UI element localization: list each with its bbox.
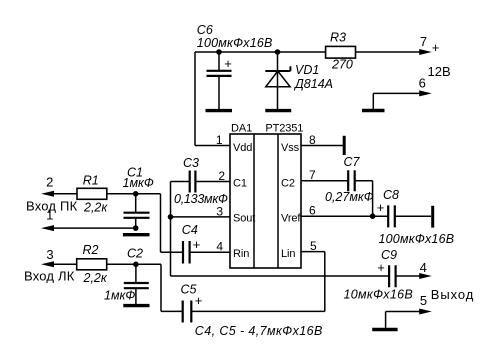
node Vref junction: [370, 213, 376, 219]
svg-text:5: 5: [420, 293, 427, 308]
ground (VD1): [265, 109, 291, 112]
node terminal 4 (output): [419, 273, 432, 279]
wire pin8 Vss to ground: [301, 145, 343, 147]
resistor R3: [326, 46, 356, 58]
svg-text:1мкФ: 1мкФ: [104, 288, 135, 302]
wire pin5 Lin: [301, 251, 325, 253]
svg-text:C4, C5 - 4,7мкФх16В: C4, C5 - 4,7мкФх16В: [195, 324, 323, 338]
svg-text:Вход ЛК: Вход ЛК: [24, 268, 75, 283]
svg-text:0,133мкФ: 0,133мкФ: [174, 192, 228, 206]
ground (C2): [123, 304, 149, 307]
svg-text:1мкФ: 1мкФ: [123, 176, 154, 190]
wire pin6 Vref: [301, 215, 388, 217]
svg-text:Vss: Vss: [281, 142, 300, 154]
wire +12V rail right: [356, 51, 425, 53]
svg-text:Lin: Lin: [281, 248, 295, 260]
capacitor C9: [389, 265, 424, 287]
svg-text:0,27мкФ: 0,27мкФ: [325, 190, 374, 204]
svg-text:Rin: Rin: [233, 248, 249, 260]
svg-text:C1: C1: [233, 177, 247, 189]
ground (pin 8): [343, 136, 346, 155]
node terminal 7 (+12V): [419, 49, 432, 55]
svg-text:3: 3: [46, 247, 53, 262]
wire input 1: [44, 227, 136, 229]
svg-text:Д814А: Д814А: [293, 77, 333, 91]
svg-text:4: 4: [420, 260, 427, 275]
ground (terminal 5): [372, 328, 397, 331]
wire pin1 Vdd: [195, 145, 230, 147]
svg-text:8: 8: [309, 133, 316, 147]
capacitor C8: [388, 205, 431, 227]
wire C2 node down to C5: [160, 264, 162, 311]
capacitor C7: [301, 170, 373, 216]
svg-text:1: 1: [46, 208, 53, 223]
resistor R2: [77, 259, 107, 270]
svg-text:Vdd: Vdd: [233, 142, 252, 154]
node terminal 5 (output gnd): [386, 312, 422, 329]
svg-text:Sout: Sout: [233, 213, 255, 225]
svg-text:100мкФх16В: 100мкФх16В: [197, 36, 273, 50]
wire R2 to node: [107, 263, 161, 265]
svg-text:12В: 12В: [428, 64, 451, 79]
svg-text:PT2351: PT2351: [265, 122, 303, 134]
svg-text:7: 7: [420, 34, 427, 49]
capacitor C2: [124, 262, 149, 305]
svg-text:VD1: VD1: [295, 63, 319, 77]
svg-text:270: 270: [331, 57, 353, 71]
svg-text:+: +: [224, 56, 232, 71]
svg-text:C7: C7: [344, 155, 361, 169]
svg-text:C2: C2: [127, 246, 143, 260]
wire R1 to node: [107, 193, 161, 195]
svg-text:100мкФх16В: 100мкФх16В: [379, 232, 455, 246]
capacitor C1: [124, 191, 150, 231]
node terminal 1 (input gnd): [41, 225, 54, 231]
wire node to C4: [160, 194, 162, 252]
resistor R1: [77, 188, 107, 199]
wire Sout down: [170, 217, 172, 276]
node terminal 6 (power gnd): [373, 93, 421, 109]
node Sout junction: [168, 214, 174, 220]
ground (C1): [123, 233, 150, 236]
wire C3 to Sout node: [170, 182, 172, 217]
wire Lin down: [324, 252, 326, 312]
svg-text:R1: R1: [83, 174, 99, 188]
svg-text:DA1: DA1: [231, 122, 252, 134]
svg-text:+: +: [377, 260, 385, 275]
zener diode VD1: [265, 49, 290, 110]
svg-text:C3: C3: [183, 156, 199, 170]
svg-text:2,2к: 2,2к: [83, 271, 108, 285]
svg-text:+: +: [195, 293, 203, 308]
svg-text:C4: C4: [182, 223, 198, 237]
svg-text:C8: C8: [383, 188, 399, 202]
svg-text:6: 6: [309, 204, 316, 218]
wire input 3: [44, 263, 77, 265]
svg-text:1: 1: [216, 133, 223, 147]
svg-text:+: +: [193, 237, 201, 252]
svg-text:+: +: [432, 40, 440, 55]
svg-text:10мкФх16В: 10мкФх16В: [344, 287, 414, 301]
op-amp U1 / IC DA1 PT2351: [230, 134, 301, 268]
wire +12V rail left: [195, 51, 326, 53]
svg-text:Выход: Выход: [431, 287, 474, 302]
capacitor C4: [161, 241, 231, 264]
node terminal 2 (input R): [41, 191, 54, 197]
wire Sout bottom run: [171, 275, 389, 277]
svg-text:+: +: [377, 200, 385, 215]
ground (C6): [206, 109, 233, 112]
svg-text:6: 6: [419, 76, 426, 91]
capacitor C6: [207, 49, 232, 110]
svg-text:C2: C2: [281, 177, 295, 189]
capacitor C3: [171, 171, 231, 193]
svg-text:R2: R2: [83, 243, 99, 257]
svg-text:2: 2: [46, 175, 53, 190]
node terminal 3 (input L): [41, 261, 54, 267]
wire Vdd drop: [194, 52, 196, 146]
capacitor C5: [161, 301, 325, 323]
ground (terminal 6): [362, 109, 385, 112]
svg-text:R3: R3: [330, 31, 346, 45]
wire input 2: [44, 193, 77, 195]
svg-text:C6: C6: [197, 23, 213, 37]
wire pin3 Sout: [171, 216, 231, 218]
svg-text:4: 4: [216, 240, 223, 254]
svg-text:2,2к: 2,2к: [83, 201, 108, 215]
ground (C8): [431, 206, 434, 228]
svg-text:Vref: Vref: [281, 213, 301, 225]
